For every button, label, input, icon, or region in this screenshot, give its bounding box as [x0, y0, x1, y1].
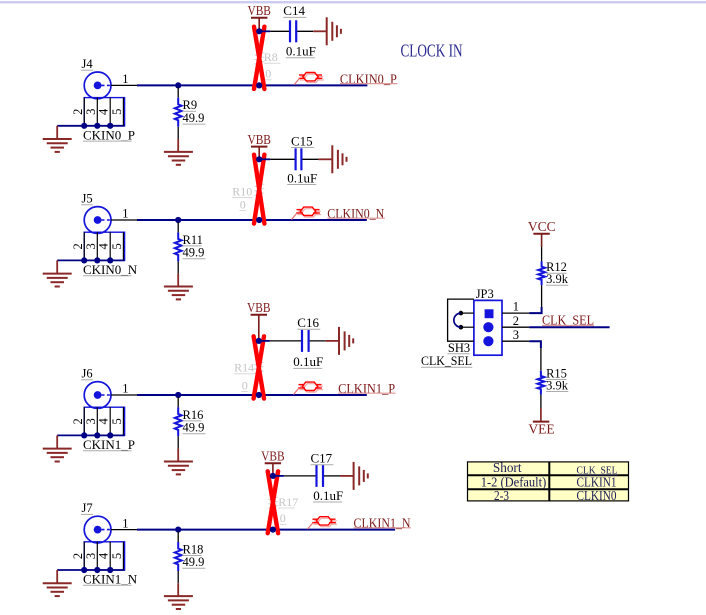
junction pin4: [107, 432, 113, 438]
resistor R11 bottom lead: [177, 261, 179, 273]
JP3 pin 3 lead: [502, 340, 529, 342]
svg-text:4: 4: [97, 552, 111, 559]
svg-text:R10: R10: [232, 184, 252, 198]
connector J4 pin 1 dash: [102, 84, 111, 86]
off-page connector CLKIN1_P: [294, 382, 324, 394]
connector J4 body circle: [84, 72, 111, 99]
svg-text:CKIN1_N: CKIN1_N: [83, 572, 138, 587]
svg-text:2: 2: [71, 418, 85, 424]
resistor R10 body (uninstalled, gray): [256, 178, 263, 202]
jumper setting table: [468, 462, 629, 501]
resistor R8 body (uninstalled, gray): [256, 46, 263, 70]
svg-text:49.9: 49.9: [183, 111, 205, 125]
capacitor C15: [296, 148, 302, 170]
shunt SH3 pin 2 dot: [459, 325, 464, 330]
svg-text:J5: J5: [82, 191, 93, 205]
junction pin2: [81, 567, 87, 573]
wire pin1 to node: [137, 84, 178, 86]
node junction at R18: [175, 527, 181, 533]
node junction at R16: [175, 392, 181, 398]
svg-text:0.1uF: 0.1uF: [286, 44, 316, 59]
main net wire: [178, 529, 395, 531]
svg-text:VBB: VBB: [247, 3, 271, 18]
svg-text:CLKIN1_P: CLKIN1_P: [338, 382, 395, 397]
svg-text:CLKIN1_N: CLKIN1_N: [354, 517, 411, 532]
wire CLK_SEL: [529, 326, 609, 328]
svg-text:CLK_SEL: CLK_SEL: [542, 313, 594, 328]
resistor R9 bottom lead: [177, 127, 179, 139]
svg-text:R8: R8: [264, 50, 278, 64]
shunt SH3 shorting arc: [454, 313, 461, 327]
resistor R14 body (uninstalled, gray): [255, 356, 262, 380]
svg-text:CLKIN0: CLKIN0: [577, 488, 617, 503]
svg-text:C16: C16: [297, 315, 319, 330]
page border top edge: [0, 1, 706, 3]
junction pin2: [81, 432, 87, 438]
connector J7 pin numbers 2 3 4 5: [71, 552, 124, 559]
svg-text:R17: R17: [278, 495, 298, 509]
connector J5 shield box: [84, 232, 124, 260]
svg-text:5: 5: [110, 418, 124, 424]
resistor R18 bottom lead: [177, 571, 179, 583]
junction on net wire: [270, 527, 276, 533]
ground lead: [177, 274, 179, 287]
svg-text:3: 3: [513, 328, 519, 342]
svg-text:49.9: 49.9: [183, 246, 205, 260]
wire pin1 to node: [137, 219, 178, 221]
junction pin2: [81, 257, 87, 263]
capacitor C16 right lead: [310, 340, 326, 342]
connector J7 pin 1 dash: [102, 529, 111, 531]
node junction at R9: [175, 82, 181, 88]
connector J5 center pin dot: [94, 216, 102, 224]
wire VBB node to C16: [259, 340, 270, 342]
ground below R11: [164, 287, 193, 300]
resistor R9: [175, 98, 182, 127]
svg-text:1: 1: [513, 300, 519, 314]
svg-text:VBB: VBB: [247, 300, 271, 315]
svg-text:1: 1: [122, 207, 128, 221]
svg-text:3.9k: 3.9k: [546, 378, 569, 392]
svg-text:1: 1: [122, 382, 128, 396]
off-page connector CLKIN0_N: [292, 207, 322, 219]
capacitor C14 right lead: [297, 30, 313, 32]
connector J5 body circle: [84, 207, 111, 234]
main net wire: [178, 394, 367, 396]
svg-text:C17: C17: [311, 451, 333, 466]
svg-text:2: 2: [71, 109, 85, 115]
main net wire: [178, 84, 367, 86]
resistor R11: [175, 232, 182, 261]
svg-text:0.1uF: 0.1uF: [293, 354, 323, 369]
svg-text:0: 0: [242, 378, 248, 392]
resistor R16 bottom lead: [177, 436, 179, 448]
wire R12 to JP3 pin 1: [541, 285, 543, 307]
svg-text:3.9k: 3.9k: [546, 272, 569, 286]
ground lead: [177, 449, 179, 462]
svg-text:J4: J4: [82, 57, 94, 71]
wire shield pins to ground: [57, 259, 124, 261]
shunt SH3 body: [448, 299, 474, 341]
svg-text:CLK_SEL: CLK_SEL: [421, 354, 472, 368]
svg-text:JP3: JP3: [476, 287, 494, 301]
svg-text:CLOCK IN: CLOCK IN: [401, 41, 463, 61]
junction VBB node: [256, 338, 262, 344]
pin 1 lead of J6: [111, 394, 137, 396]
ground lead: [177, 139, 179, 152]
analog ground at C17: [354, 462, 368, 490]
resistor R18 top lead: [177, 532, 179, 542]
svg-text:CKIN0_N: CKIN0_N: [83, 262, 138, 277]
main net wire: [178, 219, 367, 221]
svg-text:VEE: VEE: [528, 422, 554, 437]
pin 1 lead of J5: [111, 219, 137, 221]
wire pin1 to node: [137, 529, 178, 531]
svg-text:49.9: 49.9: [183, 421, 205, 435]
ground lead: [56, 126, 58, 139]
junction VBB node: [270, 473, 276, 479]
ground below J5: [43, 274, 72, 287]
svg-text:4: 4: [97, 243, 111, 250]
wire R15 to VEE: [540, 395, 542, 408]
svg-text:VCC: VCC: [528, 219, 556, 234]
junction pin2: [81, 123, 87, 129]
JP3 pin 2 round pad: [483, 322, 493, 332]
junction on net wire: [256, 217, 262, 223]
junction pin4: [107, 257, 113, 263]
connector J4 shield box: [84, 98, 124, 126]
connector J7 body circle: [84, 516, 111, 543]
JP3 pin 3 round pad: [483, 336, 493, 346]
junction VBB node: [256, 28, 262, 34]
ground below R18: [164, 596, 193, 609]
svg-text:CLKIN0_P: CLKIN0_P: [340, 72, 397, 87]
junction pin4: [107, 123, 113, 129]
svg-text:J7: J7: [82, 501, 93, 515]
junction VBB node: [256, 156, 262, 162]
connector J6 shield box: [84, 407, 124, 435]
DNI cross over R8: [254, 27, 264, 89]
wire JP3 pin 3 to R15: [529, 341, 541, 348]
wire shield pins to ground: [57, 434, 124, 436]
connector J6 body circle: [84, 382, 111, 409]
connector J7 center pin dot: [94, 526, 102, 534]
junction pin3: [94, 123, 100, 129]
svg-text:0: 0: [280, 511, 286, 525]
svg-text:CKIN0_P: CKIN0_P: [83, 127, 135, 142]
ground lead: [177, 583, 179, 596]
svg-text:CLKIN0_N: CLKIN0_N: [327, 207, 384, 222]
svg-text:SH3: SH3: [448, 341, 470, 355]
analog ground at C14: [327, 17, 341, 45]
svg-text:R14: R14: [234, 361, 254, 375]
shunt SH3 pin 1 dot: [459, 311, 464, 316]
svg-text:0: 0: [265, 67, 271, 81]
resistor R18: [175, 542, 182, 571]
connector J7 shield box: [84, 542, 124, 570]
svg-text:49.9: 49.9: [183, 555, 205, 569]
svg-text:5: 5: [110, 553, 124, 559]
svg-text:2-3: 2-3: [494, 488, 509, 503]
svg-text:VBB: VBB: [261, 449, 285, 464]
resistor R16 top lead: [177, 397, 179, 407]
wire VBB node to C17: [273, 475, 284, 477]
DNI cross over R14: [254, 336, 264, 398]
DNI cross over R10: [254, 155, 264, 224]
ground lead: [56, 570, 58, 583]
power symbol VEE: [533, 421, 549, 423]
connector J4 pins 2-5 lines: [84, 98, 123, 126]
resistor R11 top lead: [177, 222, 179, 232]
wire shield pins to ground: [57, 569, 124, 571]
ground below R16: [164, 462, 193, 475]
junction pin4: [107, 567, 113, 573]
connector J6 pin 1 dash: [102, 394, 111, 396]
svg-text:0.1uF: 0.1uF: [313, 488, 343, 503]
DNI cross over R17: [268, 471, 278, 533]
analog ground at C16: [339, 327, 353, 355]
JP3 pin 1 square pad: [485, 309, 494, 318]
connector J7 pins 2-5 lines: [84, 542, 123, 570]
svg-text:1: 1: [122, 72, 128, 86]
pin 1 lead of J4: [111, 84, 137, 86]
junction pin3: [94, 257, 100, 263]
VCC lead: [541, 234, 543, 247]
resistor R16: [175, 407, 182, 436]
svg-text:C15: C15: [291, 133, 313, 148]
svg-text:0.1uF: 0.1uF: [287, 170, 317, 185]
resistor R15: [538, 371, 545, 395]
connector J6 pin numbers 2 3 4 5: [71, 418, 124, 425]
wire VBB node to C15: [259, 158, 270, 160]
ground lead: [56, 435, 58, 448]
svg-text:J6: J6: [82, 366, 93, 380]
wire pin1 to node: [137, 394, 178, 396]
resistor R12: [538, 261, 545, 285]
svg-text:C14: C14: [283, 3, 305, 18]
connector J5 pin numbers 2 3 4 5: [71, 243, 124, 250]
ground below R9: [164, 152, 193, 165]
svg-text:0: 0: [240, 197, 246, 211]
JP3 pin 1 lead: [502, 312, 529, 314]
resistor R17 body (uninstalled, gray): [270, 491, 277, 515]
pin 1 lead of J7: [111, 529, 137, 531]
capacitor C17: [317, 465, 324, 487]
capacitor C17 right lead: [324, 475, 340, 477]
connector J5 pin 1 dash: [102, 219, 111, 221]
svg-text:2: 2: [513, 314, 519, 328]
analog ground at C15: [332, 145, 346, 173]
svg-text:2: 2: [71, 553, 85, 559]
connector J4 center pin dot: [94, 82, 102, 90]
junction pin3: [94, 567, 100, 573]
wire shield pins to ground: [57, 125, 124, 127]
capacitor C16: [302, 330, 309, 352]
svg-text:CKIN1_P: CKIN1_P: [83, 437, 135, 452]
connector J6 pins 2-5 lines: [84, 407, 123, 435]
connector J4 pin numbers 2 3 4 5: [71, 108, 124, 115]
svg-text:Short: Short: [493, 460, 522, 475]
svg-text:1: 1: [122, 516, 128, 530]
connector J5 pins 2-5 lines: [84, 232, 123, 260]
connector J6 center pin dot: [94, 391, 102, 399]
JP3 pin 2 lead: [502, 326, 529, 328]
ground below J7: [43, 583, 72, 596]
svg-text:1-2 (Default): 1-2 (Default): [481, 475, 547, 490]
ground lead: [56, 260, 58, 273]
junction on net wire: [256, 392, 262, 398]
ground below J4: [43, 139, 72, 152]
junction on net wire: [256, 82, 262, 88]
svg-text:2: 2: [71, 243, 85, 249]
off-page connector CLKIN1_N: [308, 517, 338, 529]
junction pin3: [94, 432, 100, 438]
node junction at R11: [175, 217, 181, 223]
svg-text:5: 5: [110, 109, 124, 115]
capacitor C14: [290, 20, 296, 42]
svg-text:4: 4: [97, 418, 111, 425]
jumper JP3 body: [474, 300, 502, 355]
wire VBB node to C14: [259, 30, 270, 32]
svg-text:4: 4: [97, 108, 111, 115]
svg-text:5: 5: [110, 243, 124, 249]
resistor R9 top lead: [177, 87, 179, 97]
capacitor C15 right lead: [302, 158, 318, 160]
svg-text:VBB: VBB: [247, 132, 271, 147]
shunt SH3 pin leads: [461, 313, 474, 327]
off-page connector CLKIN0_P: [294, 73, 324, 85]
ground below J6: [43, 449, 72, 462]
